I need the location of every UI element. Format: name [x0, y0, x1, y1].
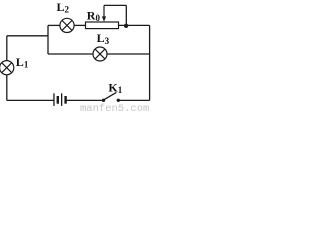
wire L3 branch left — [48, 53, 93, 55]
resistor R0 body — [86, 22, 119, 29]
wire R0 to right rail — [119, 24, 150, 26]
wire right rail vertical — [149, 25, 151, 100]
wire L2 branch left — [48, 24, 60, 26]
slider arrow of R0 — [102, 5, 106, 21]
battery — [53, 93, 67, 106]
wire slider top horizontal — [104, 4, 126, 6]
lamp L2 — [60, 18, 74, 32]
wire switch to right corner — [118, 99, 149, 101]
svg-text:L3: L3 — [97, 31, 110, 46]
svg-text:K1: K1 — [108, 81, 122, 96]
wire middle vertical node A — [47, 25, 49, 54]
wire left rail vertical — [6, 36, 8, 101]
wire bottom left segment — [7, 99, 54, 101]
lamp L3 — [93, 47, 107, 61]
wire battery to switch — [67, 99, 104, 101]
junction dot — [124, 24, 128, 28]
svg-text:L2: L2 — [57, 0, 70, 15]
svg-text:manfen5.com: manfen5.com — [80, 103, 149, 111]
wire top-left horizontal — [7, 35, 48, 37]
lamp L1 — [0, 61, 14, 75]
wire L3 to right rail — [107, 53, 149, 55]
wire L2 to R0 — [74, 24, 85, 26]
switch K1 — [102, 92, 120, 102]
svg-text:R0: R0 — [87, 8, 101, 23]
wire slider right vertical — [125, 5, 127, 25]
svg-text:L1: L1 — [16, 55, 29, 70]
